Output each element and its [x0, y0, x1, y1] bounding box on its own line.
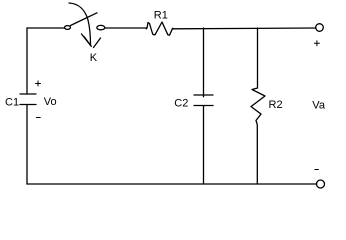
switch K arrowhead — [82, 34, 101, 48]
svg-text:Va: Va — [312, 100, 326, 112]
resistor R2 zigzag — [251, 88, 265, 122]
svg-text:K: K — [90, 52, 98, 64]
wire C2 branch upper — [203, 28, 205, 97]
svg-text:Vo: Vo — [44, 96, 57, 108]
svg-text:C1: C1 — [5, 96, 19, 108]
label - of C1 — [37, 117, 41, 119]
terminal bottom-right circle — [317, 180, 325, 188]
wire R2 branch upper — [257, 28, 259, 88]
terminal top-right circle — [316, 24, 324, 32]
wire left vertical lower (C1 to bottom) — [26, 105, 28, 185]
switch K motion arrow arc — [69, 3, 91, 45]
capacitor C2 bottom plate — [194, 105, 213, 107]
svg-text:R1: R1 — [154, 10, 168, 22]
svg-text:C2: C2 — [174, 98, 188, 110]
wire top-left horizontal from corner to switch left contact — [27, 27, 65, 29]
wire left vertical upper (to C1) — [26, 28, 28, 94]
wire top-right from R1 to output terminal — [173, 27, 316, 30]
wire C2 branch lower — [203, 106, 205, 185]
resistor R1 zigzag — [146, 22, 173, 35]
wire bottom horizontal — [27, 183, 317, 185]
capacitor C1 bottom plate — [20, 104, 36, 106]
label - at bottom-right terminal — [315, 169, 319, 171]
switch K blade — [71, 13, 98, 26]
capacitor C1 top plate — [20, 93, 36, 95]
capacitor C2 top plate — [194, 94, 213, 96]
svg-text:R2: R2 — [269, 99, 283, 111]
wire from switch to R1 — [105, 27, 146, 29]
label + at top-right terminal — [314, 41, 319, 46]
wire R2 branch lower — [256, 122, 259, 184]
switch K left contact circle — [65, 26, 71, 30]
switch K right contact circle — [97, 25, 105, 29]
label + of C1 — [36, 81, 41, 86]
